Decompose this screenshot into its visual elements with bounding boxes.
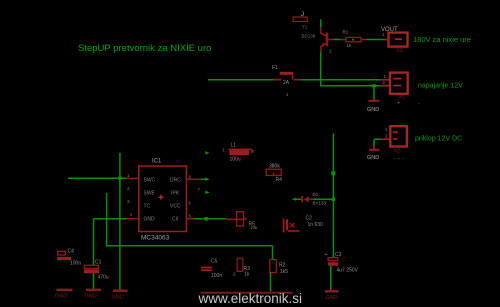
wire: drop to R2 x=272.5 [272,246,274,260]
svg-text:1k: 1k [244,272,250,278]
svg-text:470u: 470u [98,275,109,281]
pin stubs [127,178,202,218]
wire: vertical x=119.9 from 152.8 down to gnd [119,153,121,290]
diode D1 [292,192,326,206]
fuse F1 on rail [272,65,300,97]
svg-text:BD139: BD139 [302,34,316,39]
wire: drop to GND near X2 [373,86,375,100]
svg-text:C4: C4 [68,249,75,255]
svg-text:D1: D1 [313,192,319,197]
trimmer R5 [226,212,258,230]
wire: DRC pin wire with arrow [201,178,206,180]
IC1 MC34063 [127,159,202,242]
wire: base to R1 [334,39,341,41]
svg-text:GND: GND [326,295,338,301]
emitter wire green down [320,52,322,86]
resistor R2 [270,260,288,275]
svg-text:IPK: IPK [171,191,180,197]
green arrow near L1 pin1 [205,151,209,155]
resistor R4 380k [266,164,282,184]
capacitor C5 (bottom middle) [201,259,222,280]
svg-text:www.elektronik.si: www.elektronik.si [198,291,303,306]
collector wire green [320,19,322,27]
capacitor C1 [84,260,109,281]
svg-text:L1: L1 [231,143,237,149]
wire: C3 to gnd [330,266,332,290]
svg-text:100u: 100u [230,157,241,163]
svg-text:SWE: SWE [144,191,156,197]
junction at (206,218.7) [204,217,208,221]
capacitor C3 output [325,252,359,274]
junction at (333.4,173) [331,171,335,175]
svg-text:F1: F1 [272,65,278,71]
svg-text:GND: GND [367,107,379,113]
svg-text:SWC: SWC [144,178,156,184]
svg-text:1n 630: 1n 630 [308,222,324,228]
svg-text:10k: 10k [250,225,258,230]
ground under C1 [86,289,101,291]
svg-text:MC34063: MC34063 [141,235,170,242]
svg-text:GND: GND [85,294,97,300]
wire: emitter bus corner to X2 pin2 [321,85,381,87]
svg-text:StepUP pretvornik za NIXIE uro: StepUP pretvornik za NIXIE uro [78,43,211,54]
svg-text:100n: 100n [211,273,222,279]
svg-text:2A: 2A [283,80,290,86]
svg-text:GND: GND [367,155,379,161]
junction at (333.4,199.2) [332,197,336,201]
svg-text:180V za nixie ure: 180V za nixie ure [413,35,471,44]
transistor bar [326,33,329,47]
wire: C1 bottom to gnd [93,273,95,288]
svg-text:priklop 12V DC: priklop 12V DC [415,136,462,143]
svg-text:T1: T1 [302,25,308,30]
inductor L1 [223,143,254,163]
wire: GND pin row to left x=93.5 [94,218,127,220]
capacitor C2 (rotated) [283,216,323,233]
svg-text:VCC: VCC [170,204,181,210]
svg-text:R1: R1 [343,30,349,35]
svg-text:+: + [397,101,400,107]
fuse/jumper rect at top [293,17,307,22]
capacitor C4 (100n input) [57,249,81,267]
ground near X2 [369,100,380,102]
svg-text:GND: GND [55,294,67,300]
connector X2 napajanje [381,73,463,107]
connector X3 [381,126,462,161]
wire: R1 to X1 [367,39,382,41]
svg-text:J: J [301,12,304,18]
svg-text:1k5: 1k5 [280,269,288,275]
svg-text:380k: 380k [269,164,280,170]
svg-text:X2: X2 [394,149,401,155]
resistor R3 (bottom middle) [233,258,250,277]
emitter lead with arrow [321,43,327,52]
wire: +12V rail y=79.7 right part to X2 pin 1 [300,79,381,81]
collector lead maroon [321,27,327,36]
svg-text:X3: X3 [396,48,403,54]
connector X1 VOUT [381,27,471,54]
green arrow at IPK row [205,191,209,195]
svg-text:napajanje 12V: napajanje 12V [418,83,463,90]
svg-text:GND: GND [112,295,124,301]
wire: R2 bottom to rail [270,273,272,292]
svg-text:1k: 1k [347,43,353,48]
svg-text:C2: C2 [306,216,313,222]
ground under x=119.9 [113,290,128,292]
base lead maroon [328,39,333,41]
ground under C4 [57,289,73,291]
svg-text:- -- -: - -- - [394,156,405,162]
svg-text:IC1: IC1 [152,159,162,165]
wire: SWC pin wire y=178 [68,177,127,179]
wire: D1 to bus [313,198,333,200]
ground near X3 [369,149,379,151]
svg-text:4u7 250V: 4u7 250V [337,268,359,274]
wire: SWE pin drop x=106.6 [107,193,273,246]
svg-text:-: - [418,101,420,107]
svg-text:100n: 100n [70,261,81,267]
gnd rail maroon bottom [201,292,293,294]
resistor R1 [341,30,367,49]
ground under C3 [325,290,339,292]
svg-text:TC: TC [144,204,151,210]
svg-text:+: + [325,252,328,258]
bus x=333.4 vertical [332,133,334,257]
svg-text:R2: R2 [279,263,286,269]
junction on X2 gnd wire [372,84,375,87]
transistor T1 [302,19,334,86]
wire: X3 pin to gnd [374,139,381,148]
junction at (119.9,178.2) [118,177,121,180]
svg-text:C3: C3 [335,252,342,258]
svg-text:BY133: BY133 [313,201,327,206]
svg-text:C5: C5 [211,259,218,265]
svg-text:R4: R4 [276,177,283,183]
svg-text:CII: CII [172,217,178,223]
svg-text:C1: C1 [95,260,102,266]
wire: CII pin wire [194,218,226,220]
svg-text:GND: GND [144,217,156,223]
svg-text:DRC: DRC [170,178,181,184]
wire: +12V rail y=79.7 left part [208,79,274,81]
wire: x=93.5 down to C1 [93,219,95,266]
